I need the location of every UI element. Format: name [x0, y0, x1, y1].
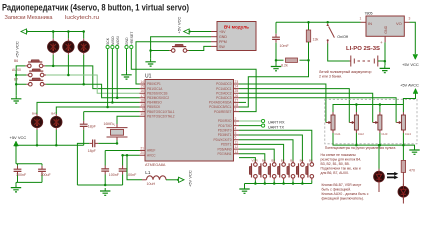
power +5V VCC arrow A5 up [10, 135, 27, 164]
svg-text:Подключени так же, как и: Подключени так же, как и [321, 166, 361, 170]
wire battery minus to ground [378, 60, 385, 62]
wire PPM run [211, 41, 217, 43]
svg-text:PB2/SS/OC1B: PB2/SS/OC1B [147, 91, 167, 95]
wire 8.2k left [276, 59, 284, 61]
potentiometer RV2 [63, 39, 74, 55]
svg-text:UART TX: UART TX [268, 125, 285, 129]
svg-text:+RESET: +RESET [130, 32, 134, 45]
svg-text:7805: 7805 [365, 12, 373, 16]
svg-text:На схеме не показаны: На схеме не показаны [321, 153, 357, 157]
svg-text:3: 3 [409, 17, 411, 21]
wire UART TX [239, 125, 261, 127]
wire C7 bottom [275, 43, 277, 64]
button BIND [169, 44, 189, 52]
ground G3 ISP [121, 72, 131, 79]
ground G2 RF [145, 59, 155, 66]
node rv5rail [55, 144, 58, 147]
svg-text:GND: GND [384, 25, 388, 33]
svg-text:18pF: 18pF [88, 124, 97, 128]
svg-text:IN: IN [368, 21, 372, 26]
potentiometer RV1 [48, 39, 59, 55]
svg-text:10mF: 10mF [280, 44, 290, 48]
resistor R3 8.2k [286, 58, 298, 62]
svg-text:13k: 13k [313, 38, 319, 42]
svg-text:L1: L1 [145, 170, 151, 175]
svg-text:19: 19 [140, 103, 144, 107]
capacitor C5 100nF [14, 164, 27, 183]
svg-text:B5: B5 [309, 159, 313, 163]
power +5V VCC arrow A2 [177, 17, 191, 34]
wire ADC2 to CH3 [239, 93, 373, 122]
node btn gnd dots [254, 182, 304, 185]
wire RV5 wiper to PB5 [56, 107, 139, 114]
svg-text:PB1/OC1A: PB1/OC1A [147, 87, 163, 91]
ground G7 battery [380, 65, 390, 72]
svg-text:21: 21 [140, 147, 144, 151]
button VSR [249, 159, 258, 181]
capacitor C3 100nF [101, 151, 119, 186]
svg-text:PC1/ADC1: PC1/ADC1 [216, 87, 232, 91]
svg-text:MOSI: MOSI [116, 36, 120, 45]
MCU U1 [145, 74, 234, 168]
node 13k-8k2 [307, 59, 310, 62]
button B1 [287, 159, 295, 181]
node rail-RV1 [52, 30, 55, 33]
wire RV3 bottom to row3 [83, 55, 85, 84]
wire AVCC line [123, 154, 140, 156]
svg-text:B0: B0 [300, 159, 304, 163]
svg-text:18: 18 [140, 98, 144, 102]
svg-text:25: 25 [235, 89, 239, 93]
node rv4rail [36, 144, 39, 147]
button B5 [306, 159, 314, 181]
wire bind button left [151, 50, 170, 52]
svg-text:14: 14 [140, 80, 144, 84]
svg-text:для B6, B7, AUX0.: для B6, B7, AUX0. [321, 171, 349, 175]
svg-text:PB0/ICP1: PB0/ICP1 [147, 82, 161, 86]
node row3-RV3 [82, 83, 85, 86]
node rail-13k [307, 21, 310, 24]
svg-text:AVCC: AVCC [147, 153, 156, 157]
button B4 [259, 159, 267, 181]
ground G8 pots [409, 147, 419, 154]
node led1 rail [378, 144, 381, 147]
capacitor C4 100nF [119, 155, 137, 185]
potentiometer RV4 [31, 112, 42, 131]
svg-text:PD3/INT1: PD3/INT1 [218, 133, 232, 137]
svg-text:12: 12 [235, 145, 239, 149]
wire RV2 top [67, 32, 69, 39]
wire AREF line [105, 150, 139, 152]
svg-text:PD6/AIN0: PD6/AIN0 [218, 147, 232, 151]
terminal +RESET [130, 45, 133, 48]
svg-text:PB4/MISO: PB4/MISO [147, 101, 162, 105]
svg-text:100nF: 100nF [126, 173, 137, 177]
svg-text:+5V VCC: +5V VCC [177, 17, 182, 34]
svg-text:On/Off: On/Off [337, 35, 348, 39]
svg-text:2: 2 [235, 117, 237, 121]
LED LED2 [398, 184, 409, 200]
wire B3 up [239, 149, 274, 160]
svg-text:PC0/ADC0: PC0/ADC0 [216, 82, 232, 86]
wire row1 to chip [45, 66, 139, 89]
svg-text:Кнопки B6-B7, VSR могут: Кнопки B6-B7, VSR могут [322, 183, 362, 187]
svg-text:16МГц: 16МГц [104, 122, 115, 126]
U1 left pin names [147, 82, 175, 157]
svg-text:PD2/INT0: PD2/INT0 [218, 129, 232, 133]
wire row2 to chip [46, 75, 139, 93]
svg-text:B3, B2, B1, B0, B5.: B3, B2, B1, B0, B5. [321, 162, 350, 166]
svg-text:ATMEGA8A: ATMEGA8A [145, 163, 166, 167]
wire GND header [126, 49, 128, 72]
svg-text:SCK: SCK [106, 37, 110, 45]
svg-text:PC6/RESET: PC6/RESET [214, 110, 232, 114]
button B0 [296, 159, 304, 181]
wire 13k top [308, 22, 310, 30]
wire pots bottom rail [333, 133, 415, 147]
wire gnd rail crystal [77, 184, 122, 186]
wire RV1 bottom to row1 [52, 55, 54, 66]
note buttons text [322, 183, 369, 201]
U1 right pin numbers [235, 80, 239, 154]
svg-text:MISO: MISO [111, 36, 115, 45]
wire B0 up [239, 135, 302, 161]
terminal SCK [106, 45, 109, 48]
svg-text:8.2k: 8.2k [281, 64, 288, 68]
terminal MISO [111, 45, 114, 48]
svg-text:CH1: CH1 [335, 132, 341, 136]
node c4aref [121, 154, 124, 157]
capacitor C2 18pF [88, 140, 99, 154]
wire ADC1 to CH2 [239, 89, 349, 123]
node sckRV5 [106, 106, 109, 109]
wire B4 up [239, 154, 265, 161]
svg-text:CH4: CH4 [405, 132, 411, 136]
ground G1 buttons [11, 96, 21, 103]
wire 8.2k right [300, 59, 309, 61]
svg-text:PD4/XCK/T0: PD4/XCK/T0 [214, 138, 232, 142]
wire +RESET run [131, 49, 256, 112]
svg-text:Записки Механика: Записки Механика [5, 15, 53, 21]
resistor R4 470 [401, 145, 415, 186]
ground G4 [100, 188, 110, 195]
svg-text:1: 1 [360, 17, 362, 21]
button AUX0 [12, 68, 46, 77]
svg-text:PC4/ADC4/SDA: PC4/ADC4/SDA [209, 101, 233, 105]
power +5V VCC arrow A1 [15, 29, 28, 58]
ground G6 divider [271, 64, 281, 71]
svg-text:GND: GND [219, 35, 227, 39]
inductor L1 [142, 170, 180, 186]
wire B1 up [239, 140, 293, 161]
switch SW1 On/Off [326, 23, 347, 43]
U1 left pin stubs [140, 84, 146, 155]
svg-text:LI-PO 2S-3S: LI-PO 2S-3S [346, 46, 380, 52]
svg-text:1: 1 [235, 108, 237, 112]
svg-text:PB3/MOSI/OC2: PB3/MOSI/OC2 [147, 96, 169, 100]
wire 7805 out [404, 21, 409, 23]
potentiometer CH2 [349, 112, 364, 136]
svg-text:PC5/ADC5/SCL: PC5/ADC5/SCL [209, 105, 232, 109]
wire RV4 wiper to PB4 [37, 102, 140, 114]
svg-text:быть с фиксацией.: быть с фиксацией. [322, 187, 352, 191]
resistor R2 13k [306, 30, 310, 42]
svg-text:23: 23 [235, 80, 239, 84]
U1 right pin names [209, 82, 233, 156]
U1 left pin numbers [140, 80, 144, 155]
node bt-7805gnd [384, 60, 387, 63]
svg-text:5: 5 [235, 131, 237, 135]
crystal X1 16MHz [104, 122, 128, 140]
pot box dashed [325, 99, 417, 144]
wire c2 to gnd col [77, 143, 89, 185]
node potb4 [402, 144, 405, 147]
wire bind button right to RF SW [189, 46, 211, 50]
wire switch to battery [328, 44, 350, 62]
svg-text:PD1/TXD: PD1/TXD [218, 124, 232, 128]
node btn-left-row3 [15, 83, 18, 86]
wire buttons gnd rail [245, 180, 312, 186]
wire RV1 top [52, 32, 54, 39]
wire 7805 gnd down [384, 36, 386, 42]
terminal UART TX [262, 124, 265, 127]
battery BT1 LI-PO [346, 40, 383, 66]
note battery text [319, 70, 372, 79]
node misoRV4 [111, 101, 114, 104]
svg-text:Кнопка AUX0 - должна быть с: Кнопка AUX0 - должна быть с [322, 192, 369, 196]
button B2 [278, 159, 286, 181]
ground G5 caps [11, 185, 21, 192]
node a5rail [15, 144, 18, 147]
svg-text:18pF: 18pF [88, 149, 97, 153]
svg-text:ВЧ модуль: ВЧ модуль [224, 25, 249, 30]
node potrail3 [379, 103, 382, 106]
button B7 [14, 77, 46, 86]
svg-text:20: 20 [140, 151, 144, 155]
svg-text:28: 28 [235, 103, 239, 107]
svg-text:Литий полимерный аккумулятор: Литий полимерный аккумулятор [319, 70, 372, 74]
node bind-gnd [149, 49, 152, 52]
wire SCK to PB5 [107, 49, 109, 107]
wire XTAL2 [117, 116, 140, 124]
svg-text:+5V VCC: +5V VCC [15, 41, 20, 58]
wire L1 feed [127, 155, 142, 180]
wire battery rail top [276, 21, 361, 23]
wire +5 rail bottom-left [16, 144, 84, 146]
svg-text:+5V VCC: +5V VCC [188, 170, 193, 187]
svg-text:27: 27 [235, 98, 239, 102]
node row1-RV1 [52, 65, 55, 68]
node xtal-c2 [116, 142, 119, 145]
svg-text:100uF: 100uF [41, 173, 52, 177]
LED LED1 [374, 145, 385, 192]
wire B5 up [239, 130, 312, 160]
regulator U3 7805 [360, 12, 411, 37]
svg-text:3: 3 [235, 122, 237, 126]
node rail-RV3 [82, 30, 85, 33]
svg-text:VO: VO [396, 21, 402, 26]
svg-text:PB5/SCK: PB5/SCK [147, 105, 161, 109]
U1 right pin stubs [234, 84, 240, 154]
node divider-gnd [275, 59, 278, 62]
svg-text:Радиопередатчик (4servo, 8 but: Радиопередатчик (4servo, 8 button, 1 vir… [2, 3, 189, 14]
LED1 arrows [387, 174, 395, 178]
svg-text:B3: B3 [271, 159, 275, 163]
wire crystal bottom [98, 140, 117, 143]
wire caps bottom rail [16, 182, 42, 184]
wire cap C7 top [275, 22, 277, 34]
wire ADC3 to CH4 [239, 98, 396, 123]
capacitor C6 100uF [38, 164, 51, 183]
wire RV2 bottom to row2 [67, 55, 69, 75]
svg-text:+5V VCC: +5V VCC [10, 135, 27, 140]
wire B2 up [239, 144, 284, 160]
power +5V VCC arrow A3 down [402, 55, 419, 68]
RF module A1 box [217, 22, 256, 51]
svg-text:B2: B2 [281, 159, 285, 163]
svg-text:PB6/TOSC1/XTAL1: PB6/TOSC1/XTAL1 [147, 110, 175, 114]
power +5V VCC arrow A6 right [177, 170, 192, 187]
node MOSI-row3 [116, 97, 119, 100]
svg-text:11: 11 [235, 140, 239, 144]
svg-text:CH2: CH2 [358, 132, 364, 136]
svg-text:9: 9 [142, 108, 144, 112]
svg-text:B1: B1 [290, 159, 294, 163]
svg-text:SW: SW [219, 45, 225, 49]
node potb2 [355, 144, 358, 147]
terminal MOSI [116, 45, 119, 48]
svg-text:UART RX: UART RX [268, 121, 285, 125]
potentiometer CH3 [373, 112, 388, 136]
svg-text:Потенциометры на рулях управле: Потенциометры на рулях управления пульта [325, 146, 396, 150]
wire A2 to RF +5V [189, 31, 212, 33]
wire RF GND to ground [211, 36, 217, 38]
capacitor C7 10mF [272, 34, 280, 43]
svg-text:10: 10 [140, 112, 144, 116]
svg-text:4: 4 [235, 126, 237, 130]
node c3rail [104, 184, 107, 187]
potentiometer CH4 [396, 112, 411, 136]
wire ADC4 stub [239, 101, 246, 103]
potentiometer CH1 [326, 112, 341, 136]
terminal GND [125, 45, 128, 48]
wire VSR up [239, 158, 255, 161]
wire XTAL1 line [84, 111, 140, 113]
svg-text:+: + [380, 40, 383, 45]
terminal UART RX [262, 119, 265, 122]
svg-text:+5V AVCC: +5V AVCC [400, 83, 419, 88]
svg-text:резисторы для кнопок B4,: резисторы для кнопок B4, [321, 157, 362, 161]
svg-text:PD0/RXD: PD0/RXD [218, 119, 232, 123]
svg-text:CH3: CH3 [381, 132, 387, 136]
svg-text:PC3/ADC3: PC3/ADC3 [216, 96, 232, 100]
svg-text:PD5/T1: PD5/T1 [221, 143, 232, 147]
svg-text:17: 17 [140, 94, 144, 98]
svg-text:PC2/ADC2: PC2/ADC2 [216, 91, 232, 95]
svg-text:15: 15 [140, 85, 144, 89]
svg-text:100nF: 100nF [16, 173, 27, 177]
node row2-RV2 [67, 74, 70, 77]
svg-text:24: 24 [235, 85, 239, 89]
wire pots top rail [333, 94, 416, 113]
button B3 [268, 159, 276, 181]
svg-text:B4: B4 [262, 159, 266, 163]
wire led2 tail [402, 197, 404, 203]
potentiometer RV3 [78, 39, 89, 55]
note resistors text [321, 153, 362, 175]
wire row3 to chip [46, 84, 139, 98]
crystal block : cap C1 18pF [80, 112, 97, 146]
node btn-left-row2 [15, 74, 18, 77]
svg-text:luckytech.ru: luckytech.ru [65, 15, 99, 21]
svg-text:AREF: AREF [147, 149, 155, 153]
svg-text:PPM: PPM [219, 40, 227, 44]
svg-text:+5V: +5V [219, 30, 226, 34]
node potrail2 [355, 103, 358, 106]
svg-text:U1: U1 [145, 74, 152, 80]
wire MOSI to PB3 [116, 49, 118, 98]
wire +5V rail top-left [28, 31, 84, 33]
svg-text:10uH: 10uH [147, 182, 156, 186]
svg-text:26: 26 [235, 94, 239, 98]
svg-text:13: 13 [235, 150, 239, 154]
svg-text:GND: GND [125, 37, 129, 45]
svg-text:100nF: 100nF [109, 173, 120, 177]
ground G9 buttons [239, 186, 249, 193]
wire ADC0 to CH1 [239, 84, 326, 123]
power +5V AVCC arrow A4 up [400, 83, 419, 94]
wire MISO to PB4 [111, 49, 113, 103]
wire buttons left common [16, 66, 26, 96]
wire UART RX [239, 120, 261, 122]
svg-text:6: 6 [235, 136, 237, 140]
svg-text:2 или 3 банки.: 2 или 3 банки. [319, 75, 342, 79]
svg-text:B6: B6 [14, 59, 18, 63]
svg-text:PB7/TOSC2/XTAL2: PB7/TOSC2/XTAL2 [147, 114, 175, 118]
svg-text:16: 16 [140, 89, 144, 93]
svg-text:+5V VCC: +5V VCC [402, 62, 419, 67]
wire RV3 top [83, 32, 85, 39]
wire caps top rail [16, 163, 42, 165]
svg-text:PD7/AIN1: PD7/AIN1 [218, 152, 232, 156]
svg-text:470: 470 [409, 169, 415, 173]
potentiometer RV5 [51, 112, 62, 131]
node rail-RV2 [67, 30, 70, 33]
wire 13k bottom [239, 42, 309, 107]
node potb3 [379, 144, 382, 147]
node rail-switch [326, 21, 329, 24]
svg-text:фиксацией (выключатель).: фиксацией (выключатель). [322, 197, 364, 201]
wire RV4 RV5 bottoms to +5 rail [37, 130, 56, 145]
button B6 [14, 59, 45, 68]
